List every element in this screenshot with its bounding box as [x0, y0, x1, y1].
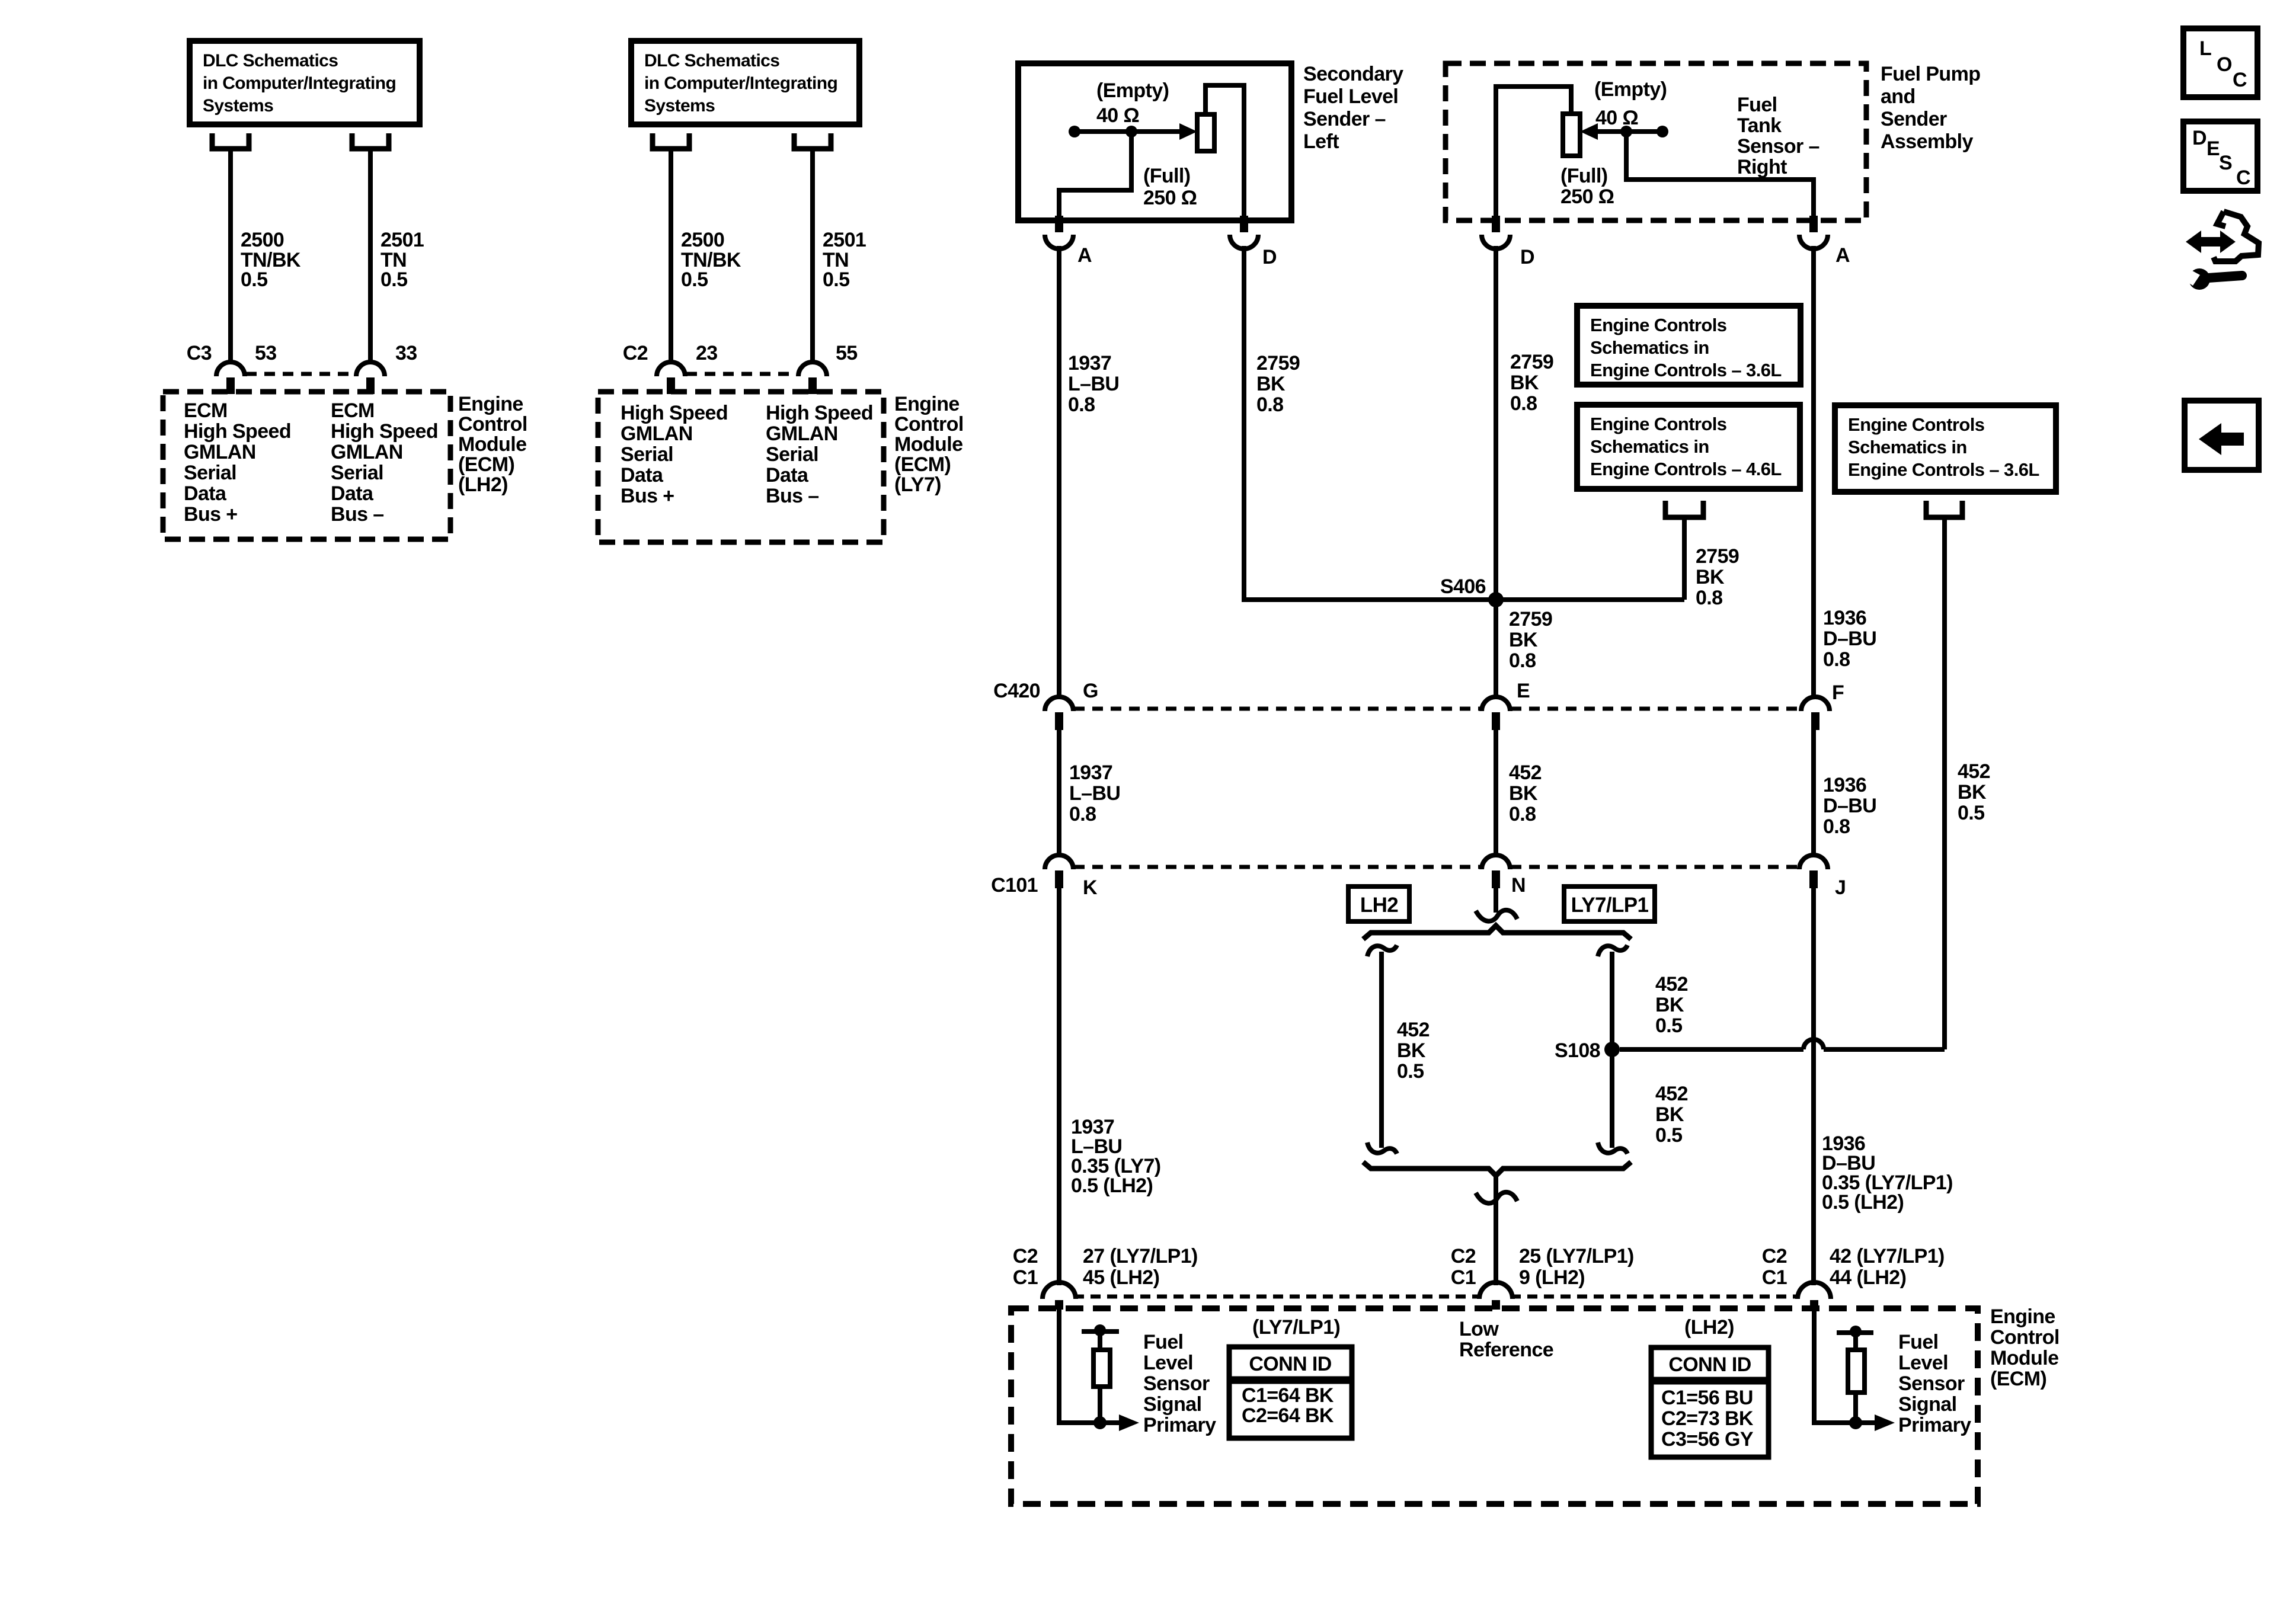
svg-text:Data: Data — [766, 464, 809, 486]
svg-text:Bus +: Bus + — [184, 503, 238, 526]
svg-text:Schematics in: Schematics in — [1590, 337, 1709, 358]
svg-text:C1: C1 — [1013, 1266, 1038, 1289]
svg-text:2759: 2759 — [1696, 545, 1739, 568]
svg-text:C: C — [2236, 167, 2250, 189]
connector C420 arc F — [1801, 697, 1830, 711]
wiper arrow (right sender) — [1580, 123, 1598, 140]
svg-text:452: 452 — [1509, 761, 1542, 784]
svg-text:42 (LY7/LP1): 42 (LY7/LP1) — [1830, 1245, 1945, 1267]
connector C101 arc K — [1045, 855, 1073, 869]
svg-text:250 Ω: 250 Ω — [1143, 187, 1197, 209]
pin stub F — [1811, 712, 1819, 730]
svg-text:C2: C2 — [1762, 1245, 1787, 1267]
svg-text:250 Ω: 250 Ω — [1560, 185, 1614, 208]
svg-text:ECM: ECM — [184, 399, 228, 422]
svg-text:Sensor: Sensor — [1898, 1372, 1965, 1395]
pin D connector (left sender) — [1240, 216, 1248, 232]
wire S108 crossover to 452 drop — [1824, 1047, 1945, 1052]
wiper mid dot (right sender) — [1620, 126, 1632, 137]
svg-text:D: D — [1262, 246, 1277, 268]
svg-text:LY7/LP1: LY7/LP1 — [1571, 894, 1649, 917]
svg-text:C1: C1 — [1451, 1266, 1476, 1289]
svg-text:O: O — [2217, 53, 2232, 76]
harness break symbol above pin 25/9 — [1476, 1192, 1517, 1204]
svg-text:High Speed: High Speed — [184, 420, 291, 443]
svg-text:Sender: Sender — [1881, 108, 1947, 130]
svg-text:GMLAN: GMLAN — [331, 441, 403, 463]
svg-text:0.8: 0.8 — [1509, 649, 1536, 672]
icon double arrow — [2186, 231, 2236, 253]
ECM (LH2) dashed box — [163, 392, 450, 539]
svg-text:CONN ID: CONN ID — [1249, 1353, 1331, 1375]
svg-text:0.8: 0.8 — [1823, 815, 1850, 838]
pullup top bar (right) — [1837, 1330, 1873, 1335]
wire 452 BK E to N — [1494, 730, 1498, 856]
svg-text:Tank: Tank — [1737, 114, 1782, 137]
wire merged 452 BK down — [1494, 1177, 1498, 1285]
svg-text:Module: Module — [894, 433, 962, 456]
wire 1937 L-BU G to K — [1057, 730, 1061, 856]
svg-text:D: D — [1520, 246, 1534, 268]
svg-text:Reference: Reference — [1459, 1339, 1553, 1361]
pin stub 55 — [808, 377, 817, 394]
wire wiper to pin A (right sender) — [1626, 132, 1814, 216]
wiper arrow (left sender) — [1179, 123, 1197, 140]
signal arrow (left) — [1119, 1414, 1139, 1431]
svg-text:BK: BK — [1696, 566, 1725, 588]
svg-text:BK: BK — [1655, 1103, 1684, 1126]
pullup resistor (right) — [1848, 1350, 1865, 1393]
svg-text:S406: S406 — [1440, 575, 1486, 598]
branch break top-right — [1598, 945, 1627, 956]
svg-text:2759: 2759 — [1510, 351, 1553, 373]
pin stub 53 — [226, 377, 235, 394]
svg-text:High Speed: High Speed — [621, 402, 728, 424]
wire 452 BK LY7 branch — [1610, 952, 1614, 1148]
svg-text:Serial: Serial — [184, 462, 236, 484]
splice S406 — [1488, 592, 1504, 607]
wire N stub down — [1494, 888, 1498, 913]
svg-text:2501: 2501 — [380, 229, 424, 251]
svg-text:53: 53 — [255, 342, 277, 364]
svg-text:Primary: Primary — [1898, 1414, 1971, 1436]
svg-text:C1: C1 — [1762, 1266, 1787, 1289]
connector row dashes (LY7 ECM) — [686, 372, 797, 376]
svg-text:D–BU: D–BU — [1823, 795, 1876, 817]
variant tag box LY7/LP1 — [1564, 886, 1655, 921]
svg-text:E: E — [1517, 680, 1530, 702]
connector arc pin 25/9 — [1479, 1282, 1512, 1299]
svg-text:Signal: Signal — [1898, 1393, 1956, 1416]
svg-text:F: F — [1832, 681, 1844, 704]
svg-text:Primary: Primary — [1143, 1414, 1216, 1436]
CONN ID table body (LY7/LP1) — [1229, 1381, 1352, 1438]
svg-text:2759: 2759 — [1256, 352, 1300, 375]
svg-text:9 (LH2): 9 (LH2) — [1519, 1266, 1585, 1289]
pin stub 27/45 — [1055, 1300, 1063, 1310]
wire 1936 D-BU J to ECM — [1811, 888, 1816, 1285]
svg-text:C2: C2 — [1451, 1245, 1476, 1267]
pin A connector (right sender) — [1809, 216, 1818, 232]
reference box: DLC Schematics (LH2 side) — [190, 41, 420, 124]
svg-text:Signal: Signal — [1143, 1393, 1201, 1416]
svg-text:Data: Data — [621, 464, 664, 486]
svg-text:0.5: 0.5 — [1958, 802, 1984, 824]
wire 2759 BK from 4.6L box — [1682, 520, 1687, 600]
svg-text:Systems: Systems — [203, 96, 273, 116]
reference box: DLC Schematics (LY7 side) — [631, 41, 859, 124]
svg-text:44 (LH2): 44 (LH2) — [1830, 1266, 1906, 1289]
bracket connector under DLC box 2 pin 1 — [653, 133, 689, 149]
svg-text:BK: BK — [1509, 629, 1538, 651]
svg-text:Engine: Engine — [894, 393, 960, 415]
svg-text:(Empty): (Empty) — [1096, 79, 1169, 102]
svg-text:0.5 (LH2): 0.5 (LH2) — [1071, 1174, 1153, 1197]
svg-text:C3=56 GY: C3=56 GY — [1661, 1428, 1754, 1451]
svg-text:ECM: ECM — [331, 399, 375, 422]
bracket connector under DLC box pin 1 — [212, 133, 249, 149]
svg-text:2500: 2500 — [241, 229, 284, 251]
svg-text:Engine Controls: Engine Controls — [1848, 414, 1984, 435]
reference box: Engine Controls Schematics in Engine Controls - 4.6L — [1577, 405, 1800, 489]
wiper mid dot (left sender) — [1125, 126, 1137, 137]
svg-text:(Full): (Full) — [1560, 165, 1607, 187]
svg-text:45 (LH2): 45 (LH2) — [1083, 1266, 1159, 1289]
svg-text:(LH2): (LH2) — [458, 473, 508, 496]
svg-text:A: A — [1077, 244, 1092, 267]
CONN ID table body (LH2) — [1651, 1382, 1769, 1457]
svg-text:Low: Low — [1459, 1318, 1499, 1340]
wire 2759 BK pin D(left) to splice row — [1244, 246, 1684, 600]
svg-text:0.5: 0.5 — [241, 268, 267, 291]
svg-text:Engine: Engine — [1990, 1305, 2055, 1328]
svg-text:2759: 2759 — [1509, 608, 1552, 630]
svg-text:Right: Right — [1737, 156, 1787, 178]
svg-text:Data: Data — [331, 482, 374, 505]
pin stub 33 — [366, 377, 375, 394]
svg-text:Fuel: Fuel — [1143, 1331, 1184, 1353]
svg-text:25 (LY7/LP1): 25 (LY7/LP1) — [1519, 1245, 1634, 1267]
connector C101 dashed line (N-J) — [1511, 865, 1798, 869]
connector C420 arc G — [1045, 697, 1073, 711]
branch break bottom-right — [1598, 1142, 1627, 1154]
connector C101 dashed line (K-N) — [1074, 865, 1481, 869]
wire 1936 D-BU F to J — [1811, 730, 1816, 856]
svg-text:Schematics in: Schematics in — [1848, 437, 1967, 457]
bracket connector under right 3.6L box — [1926, 501, 1962, 517]
svg-text:Module: Module — [458, 433, 526, 456]
pin stub K — [1055, 870, 1063, 888]
svg-text:BK: BK — [1655, 994, 1684, 1016]
wire 2500 TN/BK (LY7) — [669, 150, 673, 362]
svg-text:LH2: LH2 — [1360, 894, 1398, 917]
svg-text:0.8: 0.8 — [1823, 648, 1850, 671]
wire resistor top to pin D (left sender) — [1205, 85, 1244, 216]
svg-text:High Speed: High Speed — [331, 420, 438, 443]
svg-text:0.8: 0.8 — [1069, 803, 1096, 825]
svg-text:(LY7): (LY7) — [894, 473, 941, 496]
svg-text:GMLAN: GMLAN — [184, 441, 256, 463]
wire resistor top to pin D (right sender) — [1496, 87, 1571, 216]
svg-text:1936: 1936 — [1823, 607, 1866, 629]
wire 2501 TN (LH2) — [368, 150, 373, 362]
svg-text:(Full): (Full) — [1143, 165, 1190, 187]
reference box: Engine Controls Schematics in Engine Controls - 3.6L (upper) — [1577, 306, 1801, 385]
svg-text:33: 33 — [395, 342, 417, 364]
svg-text:Sensor –: Sensor – — [1737, 135, 1819, 158]
bracket connector under DLC box pin 2 — [352, 133, 389, 149]
svg-text:452: 452 — [1958, 760, 1990, 783]
svg-text:J: J — [1835, 876, 1846, 899]
svg-text:and: and — [1881, 85, 1916, 108]
wire 2501 TN (LY7) — [810, 150, 815, 362]
svg-text:Bus –: Bus – — [331, 503, 384, 526]
svg-text:Schematics in: Schematics in — [1590, 436, 1709, 457]
svg-text:Fuel Level: Fuel Level — [1303, 85, 1398, 108]
svg-text:Level: Level — [1143, 1352, 1193, 1374]
svg-text:Control: Control — [458, 413, 527, 436]
icon wrench handle — [2208, 276, 2242, 278]
svg-text:C2: C2 — [623, 342, 648, 364]
svg-text:BK: BK — [1509, 782, 1538, 805]
harness merge brace (bottom) — [1363, 1162, 1631, 1176]
pullup top dot (right) — [1850, 1326, 1862, 1337]
svg-text:BK: BK — [1510, 372, 1539, 394]
svg-text:55: 55 — [836, 342, 858, 364]
svg-text:A: A — [1835, 244, 1850, 267]
svg-text:K: K — [1083, 876, 1098, 899]
resistor element (left sender) — [1197, 114, 1214, 151]
svg-text:High Speed: High Speed — [766, 402, 873, 424]
wire wiper to pin A (left sender) — [1059, 132, 1131, 216]
wire 2500 TN/BK (LH2) — [228, 150, 233, 362]
svg-text:Data: Data — [184, 482, 227, 505]
svg-text:Engine Controls – 3.6L: Engine Controls – 3.6L — [1590, 360, 1782, 380]
svg-text:Fuel: Fuel — [1737, 94, 1777, 116]
pin stub E — [1492, 712, 1500, 730]
svg-text:Sender –: Sender – — [1303, 108, 1386, 130]
connector C420 arc E — [1482, 697, 1510, 711]
connector arc pin 27/45 — [1043, 1282, 1076, 1299]
svg-text:Engine Controls – 4.6L: Engine Controls – 4.6L — [1590, 459, 1782, 479]
connector arc pin 23 — [657, 362, 685, 376]
wire S108 to J crossover — [1620, 1047, 1803, 1052]
bottom connector dashed line (right) — [1511, 1295, 1799, 1299]
svg-text:in Computer/Integrating: in Computer/Integrating — [203, 73, 396, 93]
harness split brace (top) — [1363, 926, 1631, 939]
connector arc pin 42/44 — [1798, 1282, 1831, 1299]
svg-text:N: N — [1511, 874, 1526, 897]
svg-text:DLC Schematics: DLC Schematics — [644, 51, 779, 71]
wire 1937 L-BU K to ECM — [1057, 888, 1061, 1285]
connector arc pin 55 — [798, 362, 827, 376]
svg-text:GMLAN: GMLAN — [766, 422, 838, 445]
svg-text:Fuel: Fuel — [1898, 1331, 1939, 1353]
wire pin 42/44 into ECM — [1814, 1308, 1876, 1423]
svg-text:(ECM): (ECM) — [1990, 1368, 2046, 1390]
icon box back arrow — [2185, 401, 2259, 470]
svg-text:L–BU: L–BU — [1069, 782, 1120, 805]
wire 452 BK LH2 branch — [1379, 952, 1384, 1148]
svg-text:1936: 1936 — [1823, 774, 1866, 796]
svg-text:(Empty): (Empty) — [1594, 78, 1667, 101]
svg-text:in Computer/Integrating: in Computer/Integrating — [644, 73, 837, 93]
svg-text:Engine Controls: Engine Controls — [1590, 414, 1726, 434]
svg-text:G: G — [1083, 680, 1098, 702]
junction dot (left sensor bottom) — [1093, 1416, 1107, 1429]
svg-text:D: D — [2192, 127, 2207, 149]
resistor element (right sender) — [1563, 114, 1580, 156]
svg-text:Fuel Pump: Fuel Pump — [1881, 63, 1980, 85]
svg-text:Engine: Engine — [458, 393, 523, 415]
svg-text:C2=64 BK: C2=64 BK — [1242, 1404, 1334, 1427]
wiper end dot (right sender) — [1657, 126, 1668, 137]
connector C101 arc N — [1482, 855, 1510, 869]
svg-text:C1=64 BK: C1=64 BK — [1242, 1384, 1334, 1407]
svg-text:0.5: 0.5 — [681, 268, 708, 291]
svg-text:Serial: Serial — [766, 443, 818, 466]
Engine Control Module (ECM) dashed box — [1011, 1308, 1978, 1504]
connector C101 arc J — [1799, 855, 1828, 869]
pin stub G — [1055, 712, 1063, 730]
svg-text:S: S — [2219, 152, 2232, 174]
wire 2759 BK pin D(right) to C420 E — [1494, 246, 1498, 697]
icon wrench head — [2189, 268, 2210, 290]
svg-text:C2: C2 — [1013, 1245, 1038, 1267]
connector C420 dashed line (E-F) — [1511, 707, 1800, 711]
reference box: Engine Controls Schematics in Engine Controls - 3.6L (right) — [1835, 405, 2056, 492]
wire 1936 D-BU pin A(right) to C420 F — [1811, 246, 1816, 697]
svg-text:0.8: 0.8 — [1696, 587, 1722, 609]
CONN ID table header (LY7/LP1) — [1229, 1347, 1352, 1379]
branch break top-left — [1367, 945, 1397, 956]
svg-text:Control: Control — [1990, 1326, 2060, 1349]
wire hop over J — [1803, 1039, 1824, 1049]
junction dot (right sensor bottom) — [1849, 1416, 1862, 1429]
svg-text:C1=56 BU: C1=56 BU — [1661, 1387, 1753, 1409]
svg-text:Left: Left — [1303, 130, 1339, 153]
pin stub 25/9 — [1492, 1300, 1500, 1310]
connector arc pin 33 — [356, 362, 385, 376]
CONN ID table header (LH2) — [1651, 1347, 1769, 1379]
svg-text:0.5 (LH2): 0.5 (LH2) — [1822, 1191, 1904, 1214]
connector C420 dashed line (G-E) — [1074, 707, 1481, 711]
pin A connector (left sender) — [1055, 216, 1063, 232]
svg-text:(LH2): (LH2) — [1684, 1316, 1734, 1339]
bracket connector under 4.6L box — [1665, 501, 1703, 517]
svg-text:2500: 2500 — [681, 229, 724, 251]
branch break bottom-left — [1367, 1142, 1397, 1154]
wiper line (left sender) — [1075, 129, 1181, 134]
svg-text:Control: Control — [894, 413, 964, 436]
svg-text:L: L — [2199, 37, 2211, 60]
svg-text:C101: C101 — [991, 874, 1038, 897]
variant tag box LH2 — [1348, 886, 1409, 921]
svg-text:452: 452 — [1655, 1083, 1688, 1105]
pullup top bar (left) — [1082, 1329, 1119, 1334]
wiper terminal dot (left sender) — [1069, 126, 1080, 137]
svg-text:0.8: 0.8 — [1510, 392, 1537, 415]
connector arc pin 53 — [216, 362, 245, 376]
pullup top dot (left) — [1094, 1324, 1106, 1336]
wire pin 27/45 into ECM — [1059, 1308, 1120, 1423]
svg-text:23: 23 — [696, 342, 718, 364]
wire 452 BK from right 3.6L box — [1942, 520, 1947, 1049]
bottom connector dashed line (left) — [1074, 1295, 1481, 1299]
svg-text:0.5: 0.5 — [823, 268, 849, 291]
svg-text:0.8: 0.8 — [1068, 393, 1095, 416]
svg-text:Module: Module — [1990, 1347, 2058, 1369]
svg-text:Systems: Systems — [644, 96, 715, 116]
svg-text:BK: BK — [1958, 781, 1987, 804]
component box: Fuel Pump and Sender Assembly (dashed) — [1446, 63, 1866, 220]
svg-text:GMLAN: GMLAN — [621, 422, 693, 445]
svg-text:(ECM): (ECM) — [458, 453, 514, 476]
svg-text:Sensor: Sensor — [1143, 1372, 1210, 1395]
signal arrow (right) — [1875, 1414, 1895, 1431]
svg-text:C3: C3 — [187, 342, 212, 364]
pullup resistor (left) — [1093, 1350, 1110, 1387]
svg-text:DLC Schematics: DLC Schematics — [203, 51, 338, 71]
pin stub N — [1492, 870, 1500, 888]
svg-text:Secondary: Secondary — [1303, 63, 1403, 85]
splice S108 — [1604, 1042, 1620, 1057]
svg-text:C420: C420 — [993, 680, 1040, 702]
component box: Secondary Fuel Level Sender - Left — [1018, 63, 1291, 220]
icon back arrow — [2199, 423, 2244, 455]
svg-text:L–BU: L–BU — [1068, 373, 1119, 395]
svg-text:Engine Controls – 3.6L: Engine Controls – 3.6L — [1848, 459, 2039, 480]
wire 1937 L-BU pin A to C420 G — [1057, 246, 1061, 697]
svg-text:Serial: Serial — [621, 443, 673, 466]
svg-text:1937: 1937 — [1069, 761, 1112, 784]
svg-text:40 Ω: 40 Ω — [1595, 107, 1638, 129]
svg-text:27 (LY7/LP1): 27 (LY7/LP1) — [1083, 1245, 1198, 1267]
pin D connector (right sender) — [1492, 216, 1500, 232]
connector row dashes (LH2 ECM) — [246, 372, 355, 376]
svg-text:0.5: 0.5 — [1655, 1124, 1682, 1147]
svg-text:(LY7/LP1): (LY7/LP1) — [1252, 1316, 1340, 1339]
svg-text:452: 452 — [1397, 1019, 1430, 1041]
svg-text:0.5: 0.5 — [1655, 1014, 1682, 1037]
svg-text:C: C — [2233, 69, 2247, 91]
svg-text:0.5: 0.5 — [380, 268, 407, 291]
icon diagnostic outline — [2214, 212, 2259, 261]
svg-text:S108: S108 — [1555, 1039, 1600, 1062]
svg-text:Serial: Serial — [331, 462, 383, 484]
svg-text:40 Ω: 40 Ω — [1096, 104, 1139, 127]
svg-text:452: 452 — [1655, 973, 1688, 996]
svg-text:BK: BK — [1256, 373, 1285, 395]
svg-text:Engine Controls: Engine Controls — [1590, 315, 1726, 335]
pin stub 42/44 — [1810, 1300, 1818, 1310]
pullup wire (right) — [1853, 1333, 1858, 1423]
icon diagnostic notch — [2217, 212, 2225, 226]
svg-text:BK: BK — [1397, 1039, 1426, 1062]
pullup wire (left) — [1098, 1331, 1102, 1423]
bracket connector under DLC box 2 pin 2 — [794, 133, 831, 149]
svg-text:0.8: 0.8 — [1509, 803, 1536, 825]
svg-text:1937: 1937 — [1068, 352, 1111, 375]
pin stub J — [1809, 870, 1818, 888]
svg-text:0.8: 0.8 — [1256, 393, 1283, 416]
svg-text:Level: Level — [1898, 1352, 1948, 1374]
wiper line (right sender) — [1598, 129, 1662, 134]
svg-text:Bus +: Bus + — [621, 485, 674, 507]
svg-text:Assembly: Assembly — [1881, 130, 1974, 153]
icon box LOC — [2183, 28, 2257, 97]
icon box DESC — [2183, 121, 2257, 191]
